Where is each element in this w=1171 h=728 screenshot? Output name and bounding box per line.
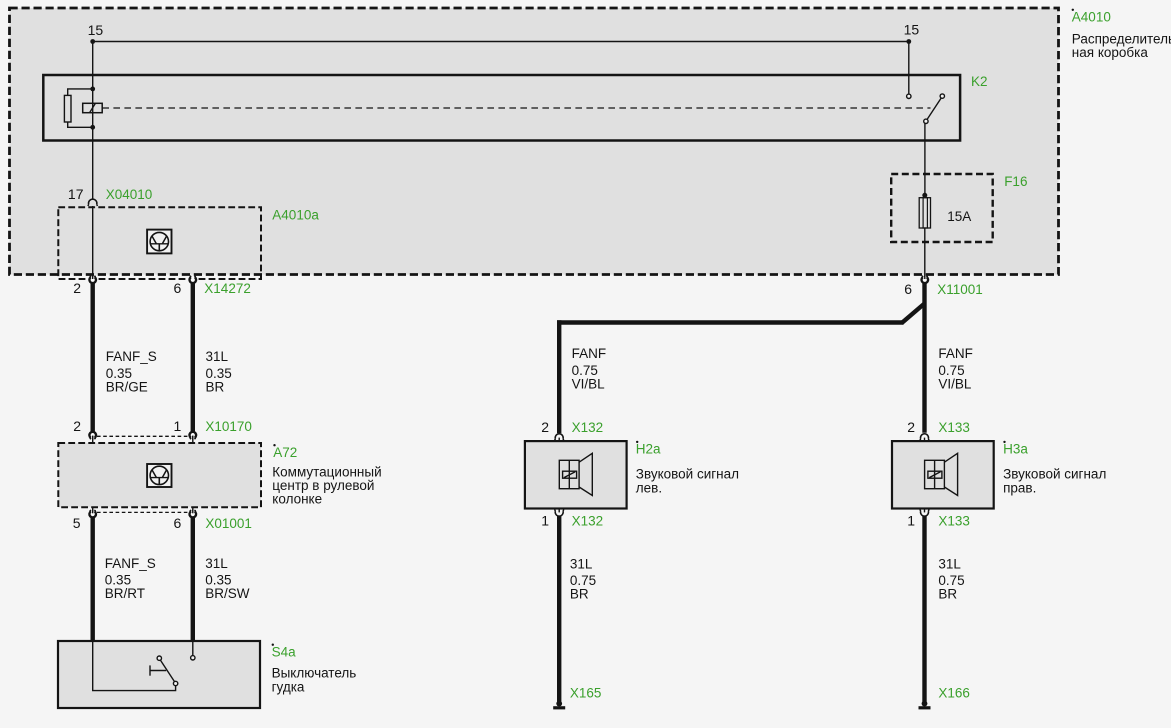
svg-text:X166: X166 (938, 686, 970, 701)
svg-text:X14272: X14272 (204, 281, 251, 296)
connector X01001 pin 6 (claw) (190, 510, 197, 518)
horn H3a (box) (892, 441, 994, 508)
svg-text:F16: F16 (1004, 174, 1027, 189)
connector X01001 pin 5 (claw) (89, 510, 96, 518)
svg-text:FANF_S: FANF_S (105, 556, 156, 571)
svg-text:5: 5 (73, 515, 81, 531)
wire branch horizontal (thick) (557, 320, 904, 324)
svg-text:31L: 31L (570, 557, 593, 572)
svg-text:Звуковой сигнал: Звуковой сигнал (1003, 467, 1106, 482)
label H3a (1003, 441, 1028, 457)
svg-text:2: 2 (907, 419, 915, 435)
label FANF_S 0.35 BR/RT (105, 556, 156, 601)
svg-text:X165: X165 (570, 686, 602, 701)
control unit A72 (dashed box) (58, 443, 261, 507)
wire to relay coil (92, 42, 94, 200)
svg-text:BR/RT: BR/RT (105, 586, 145, 601)
wire to relay contact (908, 42, 910, 95)
junction box A4010 (dashed enclosure) (10, 8, 1059, 275)
svg-text:X01001: X01001 (205, 516, 252, 531)
label Распределительная коробка (1072, 32, 1171, 61)
svg-text:1: 1 (174, 418, 182, 434)
wire terminal-15 bus (horizontal) (93, 41, 909, 43)
icon steering wheel A72 (147, 464, 171, 487)
svg-text:31L: 31L (938, 557, 961, 572)
connector X132 pin 1 (stub + arc) (555, 509, 564, 517)
svg-text:FANF: FANF (572, 346, 607, 361)
svg-text:лев.: лев. (636, 481, 662, 496)
wire tip X01001 pin5 (92, 510, 94, 514)
junction dot left (90, 39, 95, 44)
wire branch diagonal (thick) (902, 304, 925, 324)
svg-text:X04010: X04010 (106, 187, 153, 202)
svg-text:BR/SW: BR/SW (205, 586, 250, 601)
wire tip X11001 (924, 276, 926, 280)
connector X01001 link (dashed) (97, 511, 189, 513)
svg-text:2: 2 (541, 419, 549, 435)
horn switch S4a (box) (58, 641, 260, 708)
svg-text:A4010: A4010 (1072, 10, 1111, 25)
svg-text:S4a: S4a (272, 645, 297, 660)
svg-text:VI/BL: VI/BL (938, 377, 972, 392)
label Выключатель гудка (272, 666, 357, 695)
connector X14272 pin 6 (claw) (190, 276, 197, 284)
label A4010 (1072, 9, 1111, 25)
ground X166 (919, 701, 931, 710)
fuse holder F16 (dashed box) (891, 174, 993, 242)
label Звуковой сигнал прав. (1003, 467, 1106, 496)
wire tip X10170 pin1 (192, 436, 194, 440)
wire through A72 right (192, 436, 194, 513)
connector X11001 pin 6 (claw) (921, 276, 928, 284)
svg-text:BR: BR (206, 380, 225, 395)
wire FANF_S lower (thick) (90, 517, 94, 642)
connector X133 pin 2 (arc + stub) (920, 434, 929, 442)
svg-text:A4010a: A4010a (272, 208, 319, 223)
svg-text:6: 6 (174, 280, 182, 296)
wire 31L lower (thick) (191, 517, 195, 642)
svg-text:31L: 31L (206, 349, 229, 364)
svg-text:15A: 15A (947, 209, 971, 224)
label Коммутационный центр в рулевой колонке (272, 465, 381, 507)
icon horn H3a (925, 453, 958, 495)
label FANF 0.75 VI/BL right (938, 346, 973, 392)
svg-text:X133: X133 (938, 420, 970, 435)
svg-text:BR: BR (938, 587, 957, 602)
wire contact to fuse (924, 124, 926, 194)
label H2a (636, 441, 661, 457)
icon horn H2a (559, 453, 592, 495)
label 31L 0.35 BR (206, 349, 232, 395)
label 31L 0.75 BR right (938, 557, 964, 602)
wire tip X01001 pin6 (192, 510, 194, 514)
wire 31L upper (thick) (191, 282, 195, 432)
switch S4a internals (93, 642, 195, 691)
svg-text:Звуковой сигнал: Звуковой сигнал (636, 467, 739, 482)
svg-text:15: 15 (904, 22, 920, 38)
svg-text:X11001: X11001 (937, 282, 983, 297)
svg-text:2: 2 (73, 280, 81, 296)
wire through A72 left (92, 436, 94, 513)
connector X132 pin 2 (arc + stub) (555, 434, 564, 442)
svg-text:ная коробка: ная коробка (1072, 45, 1149, 60)
mechanical link (dashed) (102, 107, 930, 109)
svg-text:6: 6 (904, 281, 912, 297)
label Звуковой сигнал лев. (636, 467, 739, 496)
svg-text:X132: X132 (572, 420, 604, 435)
svg-text:X133: X133 (938, 514, 970, 529)
svg-text:A72: A72 (273, 445, 297, 460)
svg-text:колонке: колонке (272, 492, 322, 507)
svg-text:H3a: H3a (1003, 442, 1028, 457)
svg-text:прав.: прав. (1003, 481, 1036, 496)
svg-text:15: 15 (88, 22, 104, 38)
relay coil K2 (64, 87, 102, 130)
wire inside A4010a (92, 206, 94, 278)
wire H2a to ground (thick) (557, 516, 561, 702)
svg-text:H2a: H2a (636, 442, 661, 457)
connector X10170 pin 2 (claw down) (89, 432, 96, 440)
relay K2 box (43, 75, 960, 141)
wire branch to H2a (thick) (557, 320, 561, 433)
svg-text:6: 6 (174, 515, 182, 531)
svg-text:VI/BL: VI/BL (572, 377, 606, 392)
svg-text:BR/GE: BR/GE (106, 380, 148, 395)
svg-text:1: 1 (541, 513, 549, 529)
connector X10170 pin 1 (claw down) (190, 432, 197, 440)
svg-text:2: 2 (73, 418, 81, 434)
svg-text:1: 1 (907, 513, 915, 529)
wire fuse to X11001 (924, 228, 926, 277)
connector X10170 link (dashed) (97, 435, 189, 437)
horn H2a (box) (525, 441, 627, 508)
junction dot right (906, 39, 911, 44)
wire H3a to ground (thick) (922, 516, 926, 702)
svg-text:BR: BR (570, 587, 589, 602)
fuse F16 element (919, 193, 930, 228)
label 31L 0.35 BR/SW (205, 556, 250, 601)
relay contact (switch) (907, 94, 945, 124)
svg-text:FANF_S: FANF_S (106, 349, 157, 364)
label FANF_S 0.35 BR/GE (106, 349, 157, 395)
wire tip X10170 pin2 (92, 436, 94, 440)
label S4a (272, 644, 297, 660)
svg-text:FANF: FANF (938, 346, 973, 361)
wire X11001 down (thick) (922, 282, 926, 432)
label A72 (273, 444, 297, 460)
wire FANF_S upper (thick) (90, 282, 94, 432)
svg-text:X10170: X10170 (205, 419, 252, 434)
label 31L 0.75 BR left (570, 557, 596, 602)
module A4010a (dashed box) (58, 207, 261, 279)
connector X04010 (88, 199, 98, 206)
svg-text:17: 17 (68, 186, 84, 202)
svg-text:K2: K2 (971, 74, 988, 89)
icon steering wheel A4010a (147, 230, 171, 254)
svg-text:X132: X132 (572, 514, 604, 529)
svg-text:31L: 31L (205, 556, 228, 571)
connector X133 pin 1 (stub + arc) (920, 509, 929, 517)
connector X14272 pin 2 (claw) (89, 276, 96, 284)
svg-text:гудка: гудка (272, 680, 305, 695)
svg-text:Выключатель: Выключатель (272, 666, 357, 681)
label FANF 0.75 VI/BL left (572, 346, 607, 392)
ground X165 (553, 701, 565, 710)
